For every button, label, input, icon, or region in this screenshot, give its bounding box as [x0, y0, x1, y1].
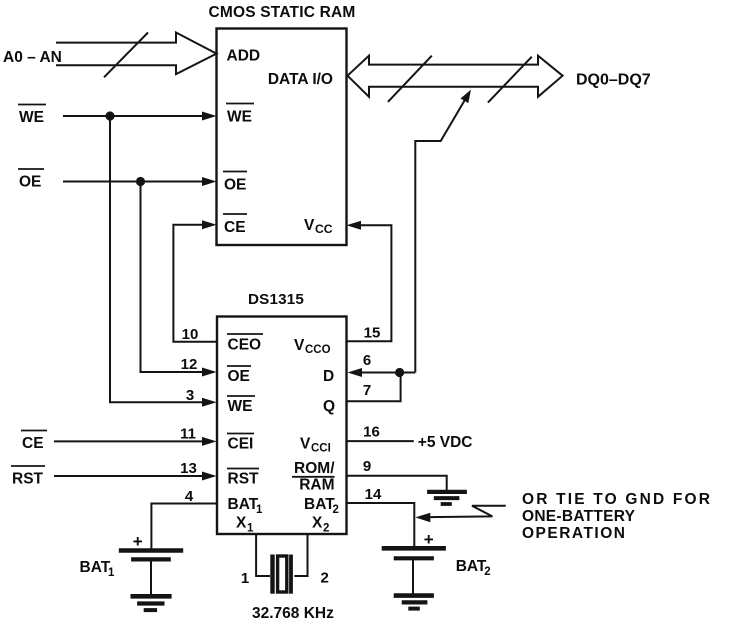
- ground below BAT2: [394, 593, 434, 598]
- svg-text:RST: RST: [228, 471, 260, 488]
- svg-text:ROM/: ROM/: [294, 460, 335, 477]
- battery BAT2: [382, 546, 446, 551]
- wire Q pin 7: [347, 373, 401, 402]
- svg-text:DATA I/O: DATA I/O: [268, 71, 333, 88]
- svg-text:2: 2: [323, 523, 329, 535]
- wire VCCO pin15 to RAM VCC: [347, 225, 392, 341]
- DS1315 pin label ROM/RAM: [294, 460, 335, 494]
- svg-text:BAT: BAT: [80, 559, 111, 576]
- svg-text:A0 – AN: A0 – AN: [3, 49, 62, 66]
- svg-text:OE: OE: [224, 177, 246, 194]
- svg-text:+5 VDC: +5 VDC: [418, 434, 473, 451]
- svg-text:16: 16: [363, 424, 380, 441]
- svg-text:RAM: RAM: [299, 477, 334, 494]
- svg-text:1: 1: [247, 523, 254, 535]
- svg-text:4: 4: [185, 488, 194, 505]
- svg-text:DS1315: DS1315: [248, 291, 304, 308]
- svg-text:32.768 KHz: 32.768 KHz: [252, 605, 334, 622]
- RAM pin label WE with overline: [227, 109, 252, 126]
- svg-text:11: 11: [180, 426, 196, 443]
- svg-text:CEI: CEI: [228, 436, 254, 453]
- bus slash 1: [388, 56, 432, 102]
- svg-text:OE: OE: [19, 174, 41, 191]
- svg-text:1: 1: [256, 504, 263, 516]
- wire CEO pin10 to RAM CE: [173, 225, 217, 342]
- wire RST to DS1315 pin 13: [54, 475, 204, 477]
- CMOS static RAM U1 box: [217, 29, 347, 246]
- DS1315 pin label RST: [228, 471, 260, 488]
- svg-text:CCO: CCO: [305, 344, 331, 356]
- svg-text:1: 1: [241, 570, 249, 587]
- svg-text:BAT: BAT: [456, 558, 487, 575]
- svg-text:ADD: ADD: [227, 48, 261, 65]
- annotation arrow one-battery: [430, 506, 506, 517]
- junction node OE: [136, 177, 145, 186]
- svg-text:V: V: [304, 217, 315, 234]
- RAM pin label OE with overline: [224, 177, 246, 194]
- svg-text:DQ0–DQ7: DQ0–DQ7: [576, 72, 651, 89]
- svg-text:D: D: [323, 368, 334, 385]
- svg-text:WE: WE: [228, 398, 253, 415]
- svg-text:CCI: CCI: [311, 443, 331, 455]
- bus slash 2: [488, 57, 532, 103]
- wire OE down to DS1315 pin 12: [141, 182, 205, 373]
- svg-text:BAT: BAT: [304, 496, 335, 513]
- address bus arrow A0-AN: [56, 33, 217, 75]
- svg-text:CEO: CEO: [228, 337, 262, 354]
- wire CE to DS1315 pin 11: [54, 440, 204, 442]
- crystal Y1: [270, 555, 274, 594]
- svg-text:3: 3: [186, 387, 194, 404]
- wire WE to RAM: [63, 115, 204, 117]
- IC U2 DS1315: [217, 317, 347, 535]
- svg-text:CC: CC: [315, 222, 333, 236]
- DS1315 pin label CEO: [228, 337, 262, 354]
- DS1315 pin label Q: [323, 398, 335, 415]
- svg-text:X: X: [312, 515, 323, 532]
- svg-text:6: 6: [363, 352, 371, 369]
- wire OE to RAM: [63, 181, 204, 183]
- svg-text:12: 12: [181, 356, 198, 373]
- wire BAT1 pin 4: [151, 504, 217, 550]
- svg-text:RST: RST: [12, 471, 44, 488]
- svg-text:7: 7: [363, 382, 371, 399]
- junction node WE: [105, 111, 114, 120]
- svg-text:2: 2: [321, 570, 329, 587]
- net label WE with overline: [19, 109, 44, 126]
- bus slash A0-AN: [104, 33, 148, 78]
- svg-text:2: 2: [484, 566, 490, 578]
- svg-text:10: 10: [182, 326, 199, 343]
- wire ROM/RAM pin 9 to ground: [347, 476, 447, 490]
- label BAT2: [456, 558, 491, 578]
- net label CE with overline: [22, 435, 44, 452]
- svg-text:OPERATION: OPERATION: [522, 525, 625, 542]
- svg-text:9: 9: [363, 458, 371, 475]
- svg-text:ONE-BATTERY: ONE-BATTERY: [522, 508, 636, 525]
- wire VCCI pin 16: [347, 440, 414, 442]
- wire WE down to DS1315 pin 3: [110, 116, 204, 402]
- svg-text:15: 15: [364, 325, 381, 342]
- DS1315 pin label VCCO: [294, 337, 331, 356]
- svg-text:+: +: [424, 530, 434, 549]
- ground below BAT1: [131, 594, 172, 599]
- svg-text:2: 2: [333, 504, 339, 516]
- junction node D/Q: [395, 368, 404, 377]
- DS1315 pin label BAT1: [228, 496, 264, 516]
- ground pin 9: [427, 490, 467, 494]
- svg-text:14: 14: [365, 486, 382, 503]
- data bus arrow DATA I/O to DQ0-DQ7: [348, 56, 563, 97]
- svg-text:V: V: [294, 337, 305, 354]
- svg-text:V: V: [300, 436, 311, 453]
- DS1315 pin label WE: [228, 398, 253, 415]
- wire D pin6 to data bus: [415, 101, 464, 373]
- battery BAT1: [119, 548, 183, 553]
- svg-text:Q: Q: [323, 398, 335, 415]
- svg-text:CMOS STATIC RAM: CMOS STATIC RAM: [208, 4, 355, 21]
- DS1315 pin label OE: [228, 368, 250, 385]
- svg-text:WE: WE: [227, 109, 252, 126]
- wire BAT2 pin 14: [347, 503, 415, 547]
- DS1315 pin label D: [323, 368, 334, 385]
- svg-text:+: +: [133, 532, 143, 551]
- svg-text:BAT: BAT: [228, 496, 259, 513]
- DS1315 pin label BAT2: [304, 496, 339, 516]
- RAM pin label CE with overline: [224, 219, 246, 236]
- svg-text:13: 13: [180, 460, 197, 477]
- DS1315 pin label X1: [236, 515, 254, 535]
- svg-text:1: 1: [108, 567, 115, 579]
- wire X1 pin 1: [256, 534, 270, 576]
- DS1315 pin label CEI: [228, 436, 254, 453]
- net label RST with overline: [12, 471, 44, 488]
- svg-text:OE: OE: [228, 368, 250, 385]
- svg-text:CE: CE: [22, 435, 44, 452]
- svg-text:CE: CE: [224, 219, 246, 236]
- label BAT1: [80, 559, 116, 579]
- wire X2 pin 2: [294, 534, 307, 576]
- svg-text:WE: WE: [19, 109, 44, 126]
- RAM pin label VCC: [304, 217, 333, 236]
- svg-text:X: X: [236, 515, 247, 532]
- DS1315 pin label VCCI: [300, 436, 331, 455]
- wire D pin 6 arrow: [360, 372, 415, 374]
- svg-text:OR TIE TO GND FOR: OR TIE TO GND FOR: [522, 491, 710, 508]
- DS1315 pin label X2: [312, 515, 329, 535]
- net label OE with overline: [19, 174, 41, 191]
